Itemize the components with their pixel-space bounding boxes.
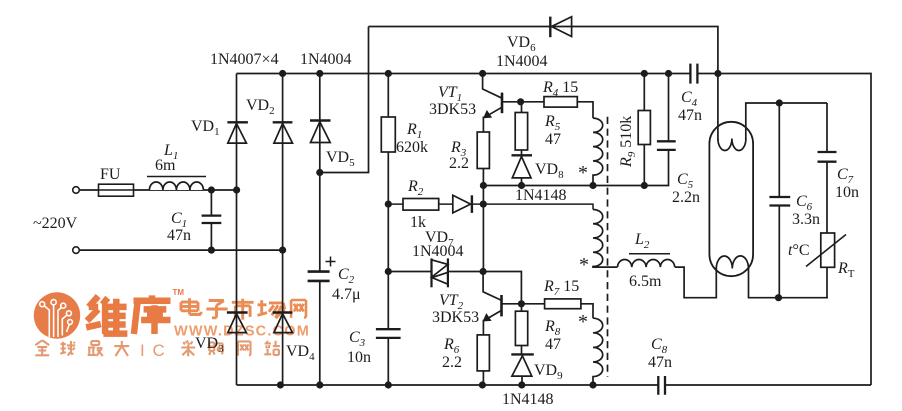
- svg-text:2.2n: 2.2n: [672, 189, 700, 206]
- capacitor C2 electrolytic: [308, 257, 336, 281]
- svg-text:47n: 47n: [678, 107, 702, 124]
- wire DC+ bus: [237, 74, 872, 386]
- wire feedback line upper: [483, 150, 668, 186]
- wire R4 to winding W1: [577, 102, 593, 118]
- diode VD6 on top rail: [550, 17, 571, 38]
- svg-text:6m: 6m: [155, 157, 176, 174]
- svg-text:47: 47: [545, 131, 561, 148]
- svg-text:*: *: [579, 254, 589, 276]
- svg-text:47n: 47n: [648, 354, 672, 371]
- diode VD4: [273, 313, 293, 333]
- inductor L1: [149, 182, 203, 190]
- svg-text:1N4004: 1N4004: [300, 51, 352, 68]
- wire bridge column VD1-VD3: [236, 74, 238, 386]
- svg-text:47n: 47n: [167, 227, 191, 244]
- wire lamp bottom right pin: [749, 269, 829, 298]
- thermistor RT: [806, 233, 846, 298]
- diode VD1: [227, 122, 248, 143]
- capacitor C4: [690, 64, 697, 84]
- svg-text:1N4007×4: 1N4007×4: [210, 51, 279, 68]
- terminal input top: [73, 187, 80, 194]
- svg-text:t°C: t°C: [788, 242, 810, 259]
- WATERMARK: [34, 288, 310, 360]
- svg-text:10n: 10n: [835, 184, 859, 201]
- wire VD5 to top rail: [320, 27, 369, 173]
- svg-text:2.2: 2.2: [442, 354, 462, 371]
- svg-text:620k: 620k: [396, 139, 428, 156]
- wire diac node to VT2 base node: [483, 272, 521, 304]
- resistor R3: [477, 117, 489, 272]
- fuse FU: [99, 184, 134, 196]
- resistor R4: [544, 97, 577, 108]
- inductor L2: [618, 260, 675, 268]
- svg-text:2.2: 2.2: [449, 155, 469, 172]
- winding W2 main: [593, 210, 618, 268]
- svg-text:C: C: [153, 341, 165, 360]
- transistor VT2: [483, 272, 544, 321]
- terminal input bottom: [73, 247, 80, 254]
- svg-text:3.3n: 3.3n: [792, 211, 820, 228]
- svg-text:6.5m: 6.5m: [629, 273, 662, 290]
- lamp filament bottom: [716, 256, 748, 269]
- wire lamp top right pin: [746, 103, 827, 140]
- svg-text:FU: FU: [100, 166, 121, 183]
- diode VD9: [511, 354, 534, 385]
- capacitor C7: [818, 103, 837, 233]
- resistor R6: [477, 320, 489, 385]
- resistor R7: [545, 299, 581, 309]
- svg-text:1N4148: 1N4148: [515, 187, 567, 204]
- svg-text:3DK53: 3DK53: [432, 309, 479, 326]
- wire bridge column VD2-VD4: [282, 74, 284, 386]
- svg-text:1k: 1k: [410, 214, 426, 231]
- wire trigger line to diac: [388, 271, 483, 273]
- svg-text:3DK53: 3DK53: [429, 101, 476, 118]
- capacitor C6: [769, 103, 790, 298]
- diode VD8: [512, 155, 533, 185]
- winding W1: [593, 118, 603, 185]
- wire column VD5 C2: [319, 74, 321, 386]
- capacitor C8: [658, 376, 665, 395]
- svg-text:1N4004: 1N4004: [496, 53, 548, 70]
- diac VD7: [432, 258, 448, 287]
- svg-text:4.7μ: 4.7μ: [332, 286, 361, 303]
- resistor R1: [381, 74, 395, 386]
- lamp tube: [709, 122, 753, 276]
- diode on R2 line: [453, 195, 472, 213]
- wire AC neutral input: [79, 249, 283, 251]
- svg-text:~220V: ~220V: [33, 215, 78, 232]
- wire AC live input: [79, 189, 237, 191]
- svg-text:1N4148: 1N4148: [502, 391, 554, 408]
- diode VD5: [310, 121, 331, 143]
- wire L2 to lamp bottom left pin: [675, 267, 717, 298]
- svg-text:47: 47: [545, 336, 561, 353]
- svg-text:*: *: [578, 162, 588, 184]
- wire R7 to winding W3: [581, 304, 593, 318]
- capacitor C1: [210, 190, 212, 250]
- wire top rail: [369, 27, 718, 141]
- svg-text:*: *: [578, 311, 588, 333]
- resistor R2: [403, 199, 439, 211]
- resistor R5: [515, 102, 527, 156]
- winding W3: [593, 318, 603, 385]
- capacitor C5: [657, 74, 676, 150]
- transistor VT1: [483, 74, 544, 118]
- svg-text:I: I: [140, 341, 145, 360]
- lamp filament top: [718, 139, 746, 151]
- diode VD2: [273, 122, 293, 143]
- svg-text:1N4004: 1N4004: [412, 243, 464, 260]
- wire R2 line: [388, 204, 593, 209]
- capacitor C3: [374, 328, 403, 339]
- svg-text:10n: 10n: [347, 349, 371, 366]
- watermark logo circle: [34, 292, 80, 338]
- transformer core dashed line: [607, 117, 609, 377]
- diode VD3: [227, 313, 248, 333]
- resistor R8: [515, 304, 527, 354]
- watermark brand characters: [86, 296, 127, 334]
- resistor R9: [638, 74, 650, 186]
- wire DC- bottom bus: [237, 384, 872, 386]
- svg-text:TM: TM: [173, 288, 185, 297]
